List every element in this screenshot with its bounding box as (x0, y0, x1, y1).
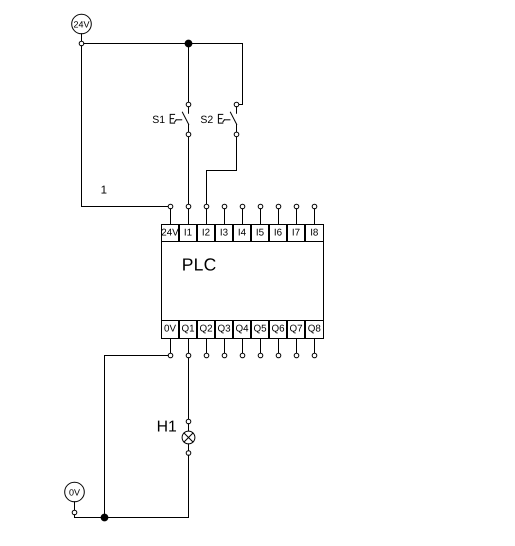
svg-text:I4: I4 (238, 228, 247, 239)
wire 0V terminal to left (105, 355, 169, 357)
wire bottom horizontal 0V rail (75, 517, 189, 519)
output terminal Q2 (198, 321, 215, 358)
output terminal Q1 (180, 321, 197, 358)
PLC main box (162, 242, 324, 321)
svg-text:24V: 24V (73, 19, 89, 29)
terminal of 24V supply (79, 34, 84, 46)
input terminal I3 (216, 204, 233, 241)
svg-text:Q6: Q6 (271, 323, 285, 334)
svg-text:0V: 0V (164, 323, 176, 334)
supply 24V (72, 14, 92, 34)
supply 0V (65, 482, 85, 502)
switch S2 (NO pushbutton contact) (230, 102, 238, 137)
input terminal I8 (306, 204, 324, 241)
svg-text:Q3: Q3 (217, 323, 231, 334)
node bottom junction (101, 514, 108, 521)
terminal of 0V supply (72, 502, 77, 518)
svg-text:Q8: Q8 (308, 323, 322, 334)
svg-text:24V: 24V (161, 228, 179, 239)
output terminal Q3 (216, 321, 233, 358)
wire left 0V branch down (104, 356, 106, 518)
input terminal I2 (198, 204, 215, 241)
switch S1 (NO pushbutton contact) (182, 102, 190, 137)
wire Q1 down to lamp (188, 358, 190, 419)
svg-text:PLC: PLC (182, 255, 217, 275)
wire S2 to input I2 (207, 137, 237, 205)
actuator E of S1 (170, 114, 182, 123)
node junction on 24V rail (185, 40, 192, 47)
svg-text:I6: I6 (274, 228, 283, 239)
svg-text:Q2: Q2 (199, 323, 212, 334)
svg-text:S2: S2 (200, 114, 213, 126)
svg-text:1: 1 (101, 185, 107, 197)
output terminal Q7 (288, 321, 305, 358)
input terminal I1 (180, 204, 197, 241)
svg-text:H1: H1 (157, 419, 177, 436)
svg-text:I3: I3 (220, 228, 229, 239)
output terminal 0V (162, 321, 179, 358)
svg-text:Q1: Q1 (181, 323, 194, 334)
wire 24V rail horizontal (84, 43, 243, 45)
wire rail corner down to S2 (239, 44, 243, 105)
output terminal Q6 (270, 321, 287, 358)
wire left branch vertical (81, 46, 83, 207)
lamp H1 (182, 419, 195, 455)
input terminal 24V (161, 204, 179, 241)
input terminal I5 (252, 204, 269, 241)
svg-text:0V: 0V (69, 487, 80, 497)
wire left branch horizontal to PLC 24V terminal (82, 206, 169, 208)
actuator E of S2 (218, 114, 230, 123)
svg-text:I5: I5 (256, 228, 265, 239)
input terminal I7 (288, 204, 305, 241)
svg-text:I7: I7 (292, 228, 300, 239)
svg-text:I2: I2 (202, 228, 210, 239)
wire lamp down (188, 455, 190, 517)
svg-text:I1: I1 (184, 228, 192, 239)
svg-text:I8: I8 (310, 228, 319, 239)
svg-text:S1: S1 (152, 114, 165, 126)
wire junction down to S1 (188, 47, 190, 102)
output terminal Q8 (306, 321, 324, 358)
svg-text:Q7: Q7 (289, 323, 302, 334)
output terminal Q5 (252, 321, 269, 358)
svg-text:Q5: Q5 (253, 323, 267, 334)
wire S1 to input I1 (188, 137, 190, 205)
output terminal Q4 (234, 321, 251, 358)
input terminal I4 (234, 204, 251, 241)
svg-text:Q4: Q4 (235, 323, 249, 334)
input terminal I6 (270, 204, 287, 241)
